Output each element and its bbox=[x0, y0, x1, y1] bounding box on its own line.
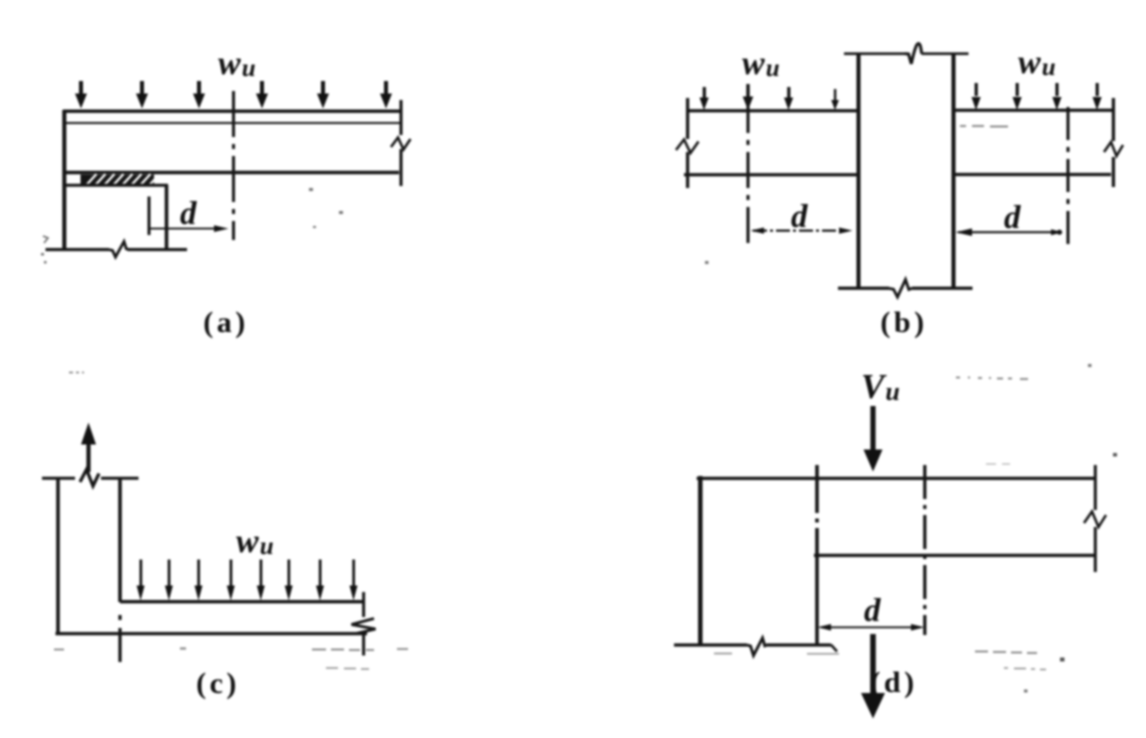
left beam top line (b) bbox=[687, 109, 857, 112]
slab line (a) bbox=[64, 122, 401, 124]
load arrow b1 bbox=[700, 87, 709, 110]
critical section dash-dot (b right) bbox=[1066, 107, 1069, 244]
beam right end break (c) bbox=[352, 619, 376, 634]
dimension arrowheads (b left) bbox=[751, 228, 853, 234]
beam right end tick (d) bbox=[1094, 465, 1097, 572]
svg-text:(c): (c) bbox=[196, 667, 240, 700]
artifact dashes bottom (d) bbox=[975, 652, 1065, 693]
column left edge (b) bbox=[856, 55, 860, 288]
load arrow c2 bbox=[165, 560, 173, 601]
beam top line (a) bbox=[63, 109, 401, 112]
right beam end tick (b) bbox=[1112, 98, 1115, 187]
concentrated load arrowhead (d) bbox=[864, 450, 883, 472]
dimension line d (a) bbox=[150, 228, 221, 230]
beam/column left edge (a) bbox=[62, 110, 66, 248]
load arrow c7 bbox=[316, 560, 324, 601]
load arrow a4 bbox=[256, 81, 268, 109]
svg-text:(d): (d) bbox=[870, 666, 917, 699]
dimension start tick (a) bbox=[148, 197, 151, 236]
artifact marks below beam (c) bbox=[54, 649, 408, 670]
tension arrow shaft (c) bbox=[86, 442, 90, 472]
column top cut line (c) bbox=[42, 477, 139, 480]
load arrow b5 bbox=[972, 83, 981, 110]
load arrow b7 bbox=[1052, 83, 1061, 110]
dimension arrowheads (d) bbox=[818, 624, 925, 631]
beam right end break (d) bbox=[1084, 512, 1106, 528]
beam right end tick (a) bbox=[399, 100, 402, 186]
right beam top line (b) bbox=[954, 109, 1113, 112]
column right face / critical section (d) bbox=[815, 465, 819, 644]
load arrow a2 bbox=[136, 81, 148, 109]
artifact dot (b) bbox=[705, 261, 709, 264]
artifact dots (a) bbox=[41, 188, 343, 264]
svg-text:d: d bbox=[791, 199, 808, 235]
artifact dashes (b right beam) bbox=[960, 125, 1008, 128]
column top line (a) bbox=[64, 184, 168, 187]
load arrow a5 bbox=[317, 81, 329, 109]
concentrated load arrow V_u shaft (d) bbox=[870, 406, 875, 452]
svg-text:d: d bbox=[864, 593, 881, 629]
right beam end break (b) bbox=[1104, 142, 1123, 156]
load arrow c5 bbox=[257, 560, 265, 601]
column bottom break (b) bbox=[889, 280, 912, 298]
beam bottom line (a) bbox=[63, 171, 399, 174]
tension arrow break (c) bbox=[80, 470, 99, 487]
reaction arrowhead (d) bbox=[861, 693, 885, 719]
dimension arrowheads (b right) bbox=[956, 228, 1063, 236]
beam bottom line (c) bbox=[56, 632, 368, 635]
dimension arrowhead (a) bbox=[214, 225, 229, 232]
margin artifact mark (a) bbox=[43, 236, 48, 243]
column top break (b) bbox=[905, 44, 922, 64]
column left edge (c) bbox=[56, 478, 60, 634]
column bottom line end hook (d) bbox=[831, 645, 837, 652]
load arrow b8 bbox=[1093, 83, 1102, 110]
artifact dashes top (d) bbox=[956, 364, 1117, 464]
critical section dash-dot line (a) bbox=[232, 91, 235, 240]
critical section dash-dot 2 (d) bbox=[923, 465, 926, 635]
critical section dash-dot (c) bbox=[118, 615, 121, 662]
svg-text:(a): (a) bbox=[203, 306, 248, 339]
column bottom break (a) bbox=[109, 242, 129, 258]
load arrow b6 bbox=[1013, 83, 1022, 110]
load arrow c8 bbox=[350, 560, 358, 601]
svg-text:d: d bbox=[1004, 200, 1021, 236]
load arrow b3 bbox=[784, 87, 793, 110]
artifact dots top (c) bbox=[69, 372, 84, 374]
load arrow b2 bbox=[743, 84, 754, 110]
beam top line (d) bbox=[697, 477, 1095, 480]
load arrow b4 bbox=[831, 89, 839, 110]
critical section dash-dot (b left) bbox=[746, 97, 749, 243]
left beam end break (b) bbox=[676, 140, 699, 154]
column bottom line (a) bbox=[46, 248, 188, 251]
bearing pad (a) bbox=[81, 174, 156, 186]
load arrow c1 bbox=[137, 560, 145, 601]
column bottom cut line (d) bbox=[674, 643, 831, 646]
beam right end break (a) bbox=[391, 138, 411, 150]
column right edge (c) bbox=[118, 478, 122, 602]
left beam end tick (b) bbox=[686, 98, 689, 188]
beam right end tick (c) bbox=[362, 592, 365, 656]
column right edge (b) bbox=[951, 55, 955, 288]
reaction arrow shaft (d) bbox=[870, 634, 876, 696]
svg-text:(b): (b) bbox=[880, 306, 927, 339]
load arrow c3 bbox=[195, 560, 203, 601]
column bottom cut line (b) bbox=[838, 287, 973, 290]
load arrow c6 bbox=[285, 560, 293, 601]
column right edge (a) bbox=[165, 185, 169, 251]
load arrow a1 bbox=[75, 81, 87, 109]
column bottom break (d) bbox=[747, 638, 767, 656]
column top cut line (b) bbox=[844, 52, 969, 55]
artifact dashes under column line (d) bbox=[714, 653, 839, 655]
dimension line d (d) bbox=[821, 626, 921, 628]
column left edge (d) bbox=[698, 476, 703, 644]
tension arrowhead (c) bbox=[81, 423, 96, 445]
load arrow a6 bbox=[380, 81, 392, 109]
svg-text:d: d bbox=[180, 196, 197, 232]
dimension line d (b left) bbox=[753, 230, 848, 232]
load arrow c4 bbox=[227, 560, 235, 601]
right beam bottom line (b) bbox=[954, 173, 1111, 176]
load arrow a3 bbox=[193, 81, 205, 109]
beam bottom line (d) bbox=[814, 554, 1095, 557]
dimension line d (b right) bbox=[958, 231, 1060, 233]
beam top line (c) bbox=[120, 600, 365, 603]
left beam bottom line (b) bbox=[684, 173, 857, 176]
